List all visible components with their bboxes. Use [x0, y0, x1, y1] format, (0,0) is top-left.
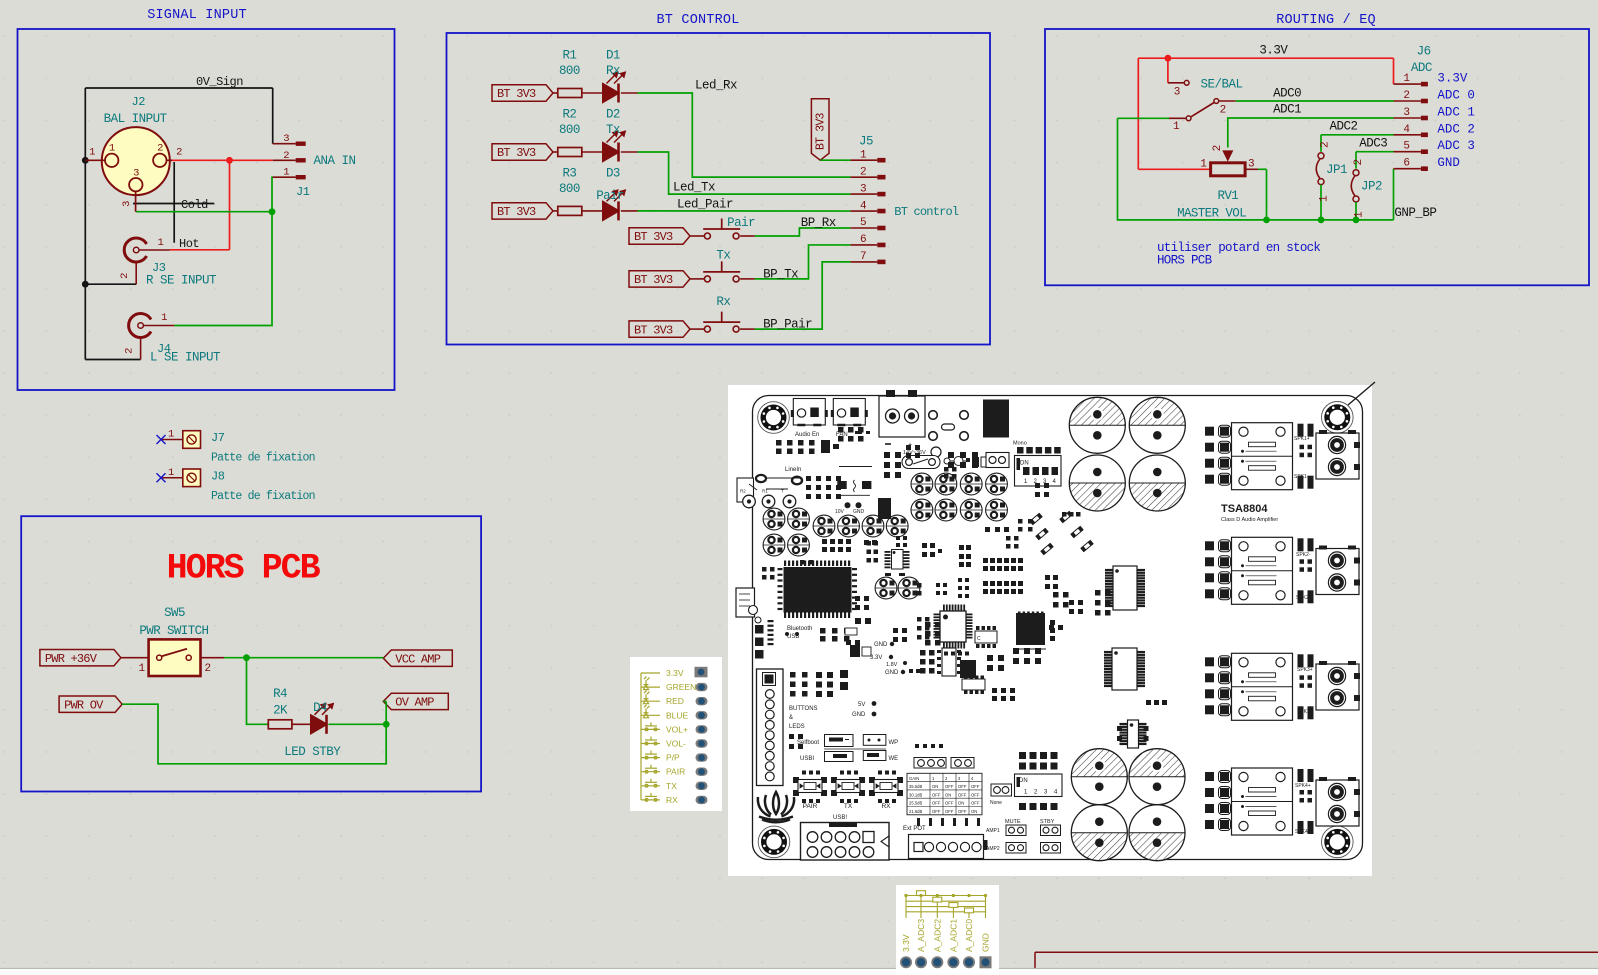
svg-text:JP1: JP1 [1326, 163, 1347, 177]
svg-text:OFF: OFF [932, 792, 941, 797]
svg-text:A_ADC0: A_ADC0 [964, 919, 974, 952]
svg-text:GND: GND [885, 670, 899, 676]
svg-text:SPK3+: SPK3+ [1297, 667, 1313, 673]
svg-text:800: 800 [559, 123, 580, 137]
svg-text:SPK1+: SPK1+ [1294, 436, 1310, 442]
svg-text:OFF: OFF [945, 809, 954, 814]
svg-text:25.5dB: 25.5dB [909, 801, 922, 806]
svg-text:VCC AMP: VCC AMP [395, 652, 440, 666]
svg-text:R1: R1 [562, 49, 576, 63]
svg-text:GND: GND [852, 712, 866, 718]
svg-text:R3: R3 [562, 166, 576, 180]
svg-text:BT control: BT control [894, 205, 959, 219]
svg-text:SE/BAL: SE/BAL [1201, 78, 1243, 92]
svg-text:SPK1-: SPK1- [1294, 474, 1309, 480]
svg-text:A_ADC2: A_ADC2 [932, 919, 942, 952]
svg-text:USBI: USBI [800, 756, 814, 762]
svg-text:4: 4 [1403, 124, 1410, 136]
svg-text:PAIR: PAIR [803, 803, 818, 810]
svg-text:BP_Rx: BP_Rx [801, 216, 836, 230]
svg-text:800: 800 [559, 182, 580, 196]
svg-text:ROUTING / EQ: ROUTING / EQ [1276, 13, 1376, 28]
svg-text:Patte de fixation: Patte de fixation [211, 490, 315, 503]
svg-text:LED STBY: LED STBY [284, 745, 341, 759]
svg-text:R SE INPUT: R SE INPUT [146, 274, 217, 288]
svg-text:30.1dB: 30.1dB [909, 792, 922, 797]
svg-text:R2: R2 [740, 489, 746, 494]
svg-text:5: 5 [860, 217, 866, 229]
svg-text:1: 1 [168, 429, 174, 441]
svg-text:6: 6 [1403, 158, 1409, 170]
svg-text:J7: J7 [211, 431, 225, 445]
svg-text:ON: ON [945, 792, 951, 797]
svg-text:AMP1: AMP1 [986, 828, 1000, 834]
svg-text:BT 3V3: BT 3V3 [634, 230, 673, 244]
svg-text:OFF: OFF [958, 792, 967, 797]
svg-text:5: 5 [1403, 141, 1409, 153]
svg-text:DN: DN [1020, 461, 1029, 467]
svg-text:R4: R4 [273, 687, 287, 701]
svg-text:Rx: Rx [606, 64, 620, 78]
svg-text:GND: GND [853, 509, 865, 515]
svg-text:3: 3 [283, 133, 289, 145]
svg-text:WE: WE [889, 756, 899, 762]
svg-text:2: 2 [1403, 90, 1409, 102]
svg-text:1: 1 [283, 167, 289, 179]
svg-text:TX: TX [844, 803, 853, 810]
svg-text:ADC 1: ADC 1 [1437, 106, 1475, 120]
svg-text:Hot: Hot [179, 237, 199, 251]
svg-text:GND: GND [981, 933, 991, 952]
svg-text:Rx: Rx [716, 295, 730, 309]
svg-text:J2: J2 [132, 95, 146, 109]
svg-text:USB!: USB! [833, 815, 847, 821]
svg-text:4: 4 [860, 200, 867, 212]
svg-text:PWR +36V: PWR +36V [45, 652, 98, 666]
svg-text:2: 2 [124, 348, 136, 354]
svg-text:1: 1 [138, 663, 145, 675]
svg-text:3: 3 [860, 183, 866, 195]
svg-text:OFF: OFF [945, 801, 954, 806]
svg-text:D1: D1 [606, 49, 620, 63]
svg-text:0V_Sign: 0V_Sign [196, 75, 243, 89]
svg-text:3: 3 [1174, 87, 1180, 99]
svg-text:10V: 10V [835, 509, 845, 515]
svg-text:3: 3 [1403, 107, 1409, 119]
svg-text:HORS PCB: HORS PCB [1157, 254, 1213, 268]
svg-text:L SE INPUT: L SE INPUT [150, 351, 221, 365]
svg-text:BP_Pair: BP_Pair [763, 318, 812, 332]
svg-text:PWR OV: PWR OV [64, 698, 104, 712]
svg-text:Led_Pair: Led_Pair [677, 198, 733, 212]
svg-text:1: 1 [1403, 73, 1410, 85]
svg-text:RV1: RV1 [1217, 189, 1238, 203]
svg-text:1: 1 [1354, 211, 1366, 218]
svg-text:SPK4+: SPK4+ [1295, 783, 1311, 789]
svg-text:Selfboot: Selfboot [797, 740, 819, 746]
svg-text:35.5dB: 35.5dB [909, 784, 922, 789]
svg-text:1: 1 [157, 237, 163, 249]
svg-text:2: 2 [1220, 104, 1226, 116]
svg-text:D3: D3 [606, 166, 620, 180]
svg-text:3.3V: 3.3V [870, 655, 882, 661]
svg-text:1: 1 [1319, 195, 1331, 202]
svg-text:Pair: Pair [727, 216, 755, 230]
svg-text:GREEN: GREEN [666, 682, 696, 692]
svg-text:A_ADC3: A_ADC3 [916, 919, 926, 952]
svg-text:SPK4+: SPK4+ [1295, 829, 1311, 835]
svg-text:BP_Tx: BP_Tx [763, 268, 798, 282]
svg-text:JP2: JP2 [1361, 180, 1382, 194]
svg-text:2: 2 [157, 143, 163, 155]
svg-text:2: 2 [860, 166, 866, 178]
svg-text:1: 1 [860, 149, 867, 161]
svg-text:LEDS: LEDS [789, 724, 805, 730]
svg-text:SPK3-: SPK3- [1297, 709, 1312, 715]
svg-text:Cold: Cold [181, 198, 208, 212]
svg-text:3.3V: 3.3V [1259, 44, 1288, 58]
svg-text:1: 1 [109, 143, 115, 155]
svg-text:OV AMP: OV AMP [395, 696, 434, 710]
svg-text:DN: DN [1019, 778, 1028, 784]
svg-text:1: 1 [1173, 121, 1180, 133]
svg-text:2: 2 [204, 663, 210, 675]
svg-text:OFF: OFF [971, 801, 980, 806]
svg-text:WP: WP [889, 740, 899, 746]
svg-text:MASTER VOL: MASTER VOL [1177, 207, 1246, 221]
svg-text:Patte de fixation: Patte de fixation [211, 452, 315, 465]
svg-text:PAIR: PAIR [666, 767, 685, 777]
svg-text:STBY: STBY [1040, 819, 1055, 825]
svg-text:2: 2 [1320, 142, 1332, 148]
svg-text:RED: RED [666, 696, 684, 706]
svg-text:2: 2 [283, 150, 289, 162]
svg-text:Pair: Pair [596, 189, 624, 203]
svg-text:T: T [781, 489, 784, 494]
svg-text:Tx: Tx [606, 123, 620, 137]
svg-text:Led_Tx: Led_Tx [673, 181, 715, 195]
svg-text:GND: GND [1437, 156, 1460, 170]
svg-text:MUTE: MUTE [1005, 819, 1021, 825]
svg-text:ANA IN: ANA IN [314, 154, 356, 168]
svg-text:3: 3 [121, 201, 133, 207]
svg-text:BAL INPUT: BAL INPUT [104, 112, 168, 126]
svg-text:2: 2 [119, 273, 131, 279]
svg-text:GAIN: GAIN [909, 776, 919, 781]
svg-text:3.3V: 3.3V [901, 934, 911, 952]
svg-text:RX: RX [666, 795, 678, 805]
svg-text:ADC 0: ADC 0 [1437, 89, 1475, 103]
svg-text:VOL-: VOL- [666, 739, 686, 749]
svg-text:Audio En: Audio En [795, 432, 819, 438]
svg-text:OFF: OFF [932, 801, 941, 806]
svg-text:R2: R2 [562, 108, 576, 122]
svg-text:2K: 2K [273, 704, 288, 718]
svg-text:Ext POT: Ext POT [903, 826, 926, 832]
svg-text:J1: J1 [296, 185, 310, 199]
svg-text:GNP_BP: GNP_BP [1394, 206, 1436, 220]
svg-text:BT 3V3: BT 3V3 [497, 146, 536, 160]
svg-text:Led_Rx: Led_Rx [695, 79, 737, 93]
svg-text:OFF: OFF [932, 809, 941, 814]
svg-text:ON: ON [971, 809, 977, 814]
svg-text:3: 3 [133, 168, 139, 180]
svg-text:BUTTONS: BUTTONS [789, 706, 818, 712]
svg-text:ON: ON [932, 784, 938, 789]
svg-text:&: & [789, 715, 793, 721]
svg-text:21.6dB: 21.6dB [909, 809, 922, 814]
svg-text:BT 3V3: BT 3V3 [634, 273, 673, 287]
svg-text:BT CONTROL: BT CONTROL [656, 13, 739, 28]
svg-text:J8: J8 [211, 469, 225, 483]
svg-text:BT 3V3: BT 3V3 [497, 87, 536, 101]
svg-text:AMP2: AMP2 [986, 846, 1000, 852]
svg-text:Mono: Mono [1013, 441, 1027, 447]
svg-text:1: 1 [161, 312, 167, 324]
svg-text:ADC2: ADC2 [1330, 120, 1358, 134]
svg-text:5V: 5V [858, 702, 865, 708]
svg-text:ADC 3: ADC 3 [1437, 139, 1475, 153]
svg-text:ADC 2: ADC 2 [1437, 122, 1475, 136]
svg-text:R1: R1 [762, 489, 768, 494]
svg-text:Bluetooth: Bluetooth [787, 626, 812, 632]
svg-text:SPK2+: SPK2+ [1296, 595, 1312, 601]
svg-text:BT 3V3: BT 3V3 [634, 323, 673, 337]
svg-text:A_ADC1: A_ADC1 [948, 919, 958, 952]
svg-text:1.8V: 1.8V [886, 662, 898, 668]
svg-text:J5: J5 [859, 135, 873, 149]
svg-text:Class D Audio Amplifier: Class D Audio Amplifier [1221, 517, 1278, 523]
svg-text:2: 2 [176, 147, 182, 159]
svg-text:None: None [990, 800, 1002, 806]
svg-text:C: C [977, 636, 981, 642]
svg-text:OFF: OFF [958, 809, 967, 814]
svg-text:OFF: OFF [971, 792, 980, 797]
svg-text:TX: TX [666, 781, 677, 791]
svg-text:1: 1 [168, 467, 174, 479]
svg-text:RX: RX [881, 803, 891, 810]
svg-text:OFF: OFF [958, 784, 967, 789]
svg-text:P/P: P/P [666, 753, 680, 763]
svg-text:J6: J6 [1417, 44, 1431, 58]
svg-text:D4: D4 [313, 701, 327, 715]
svg-text:SIGNAL INPUT: SIGNAL INPUT [147, 8, 247, 23]
svg-text:HORS PCB: HORS PCB [167, 549, 321, 589]
svg-text:ON: ON [958, 801, 964, 806]
svg-text:2: 2 [1212, 145, 1224, 151]
svg-text:BT 3V3: BT 3V3 [815, 112, 828, 150]
svg-text:SW5: SW5 [164, 606, 185, 620]
svg-text:OFF: OFF [971, 784, 980, 789]
svg-text:2: 2 [1353, 159, 1365, 165]
svg-text:7: 7 [860, 251, 866, 263]
svg-text:3.3V: 3.3V [666, 668, 684, 678]
svg-text:ADC0: ADC0 [1273, 87, 1301, 101]
svg-text:3.3V: 3.3V [1437, 72, 1468, 86]
svg-text:ADC3: ADC3 [1359, 137, 1387, 151]
svg-text:PWR SWITCH: PWR SWITCH [139, 624, 208, 638]
svg-text:6: 6 [860, 234, 866, 246]
svg-text:800: 800 [559, 64, 580, 78]
svg-text:TSA8804: TSA8804 [1221, 503, 1268, 515]
svg-text:GND: GND [874, 642, 888, 648]
svg-text:BLUE: BLUE [666, 710, 689, 720]
svg-text:OFF: OFF [945, 784, 954, 789]
svg-text:1: 1 [1200, 158, 1207, 170]
svg-text:Tx: Tx [716, 248, 730, 262]
svg-text:D2: D2 [606, 108, 620, 122]
svg-text:BT 3V3: BT 3V3 [497, 205, 536, 219]
svg-text:VOL+: VOL+ [666, 724, 688, 734]
svg-text:ADC1: ADC1 [1273, 103, 1301, 117]
svg-text:LineIn: LineIn [785, 467, 801, 473]
svg-text:1: 1 [89, 147, 95, 159]
svg-text:SPK2-: SPK2- [1296, 552, 1311, 558]
svg-text:3: 3 [1248, 158, 1254, 170]
svg-text:ADC: ADC [1411, 61, 1432, 75]
